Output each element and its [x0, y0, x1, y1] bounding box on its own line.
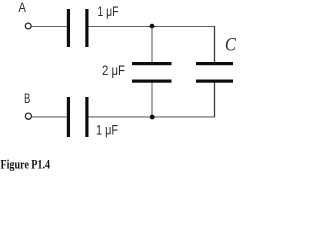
capacitor 1 uF top (right plate) [85, 9, 88, 47]
capacitor 2 uF (bottom plate) [132, 80, 172, 83]
capacitor C (top plate) [196, 62, 233, 65]
capacitor C (bottom plate) [196, 80, 233, 83]
junction bottom node [150, 115, 155, 120]
svg-text:2 μF: 2 μF [102, 63, 125, 78]
terminal A [25, 23, 31, 29]
capacitor 1 uF top (left plate) [67, 9, 70, 47]
wire A to capacitor [31, 26, 66, 28]
wire top rail [89, 26, 216, 28]
wire B to capacitor [32, 116, 67, 118]
wire right branch lower [214, 83, 216, 118]
wire right branch upper [214, 26, 216, 63]
junction top node [150, 24, 155, 29]
wire middle branch upper [151, 27, 153, 63]
svg-text:B: B [24, 91, 30, 106]
svg-text:1 μF: 1 μF [96, 123, 118, 138]
svg-text:Figure P1.4: Figure P1.4 [1, 156, 51, 171]
terminal B [25, 113, 31, 119]
capacitor 1 uF bottom (left plate) [67, 97, 70, 137]
wire bottom rail [89, 116, 216, 118]
svg-text:1 μF: 1 μF [98, 4, 119, 19]
svg-text:C: C [225, 36, 237, 56]
capacitor 2 uF (top plate) [132, 62, 172, 65]
wire middle branch lower [151, 83, 153, 118]
svg-text:A: A [18, 0, 26, 15]
capacitor 1 uF bottom (right plate) [85, 97, 88, 137]
